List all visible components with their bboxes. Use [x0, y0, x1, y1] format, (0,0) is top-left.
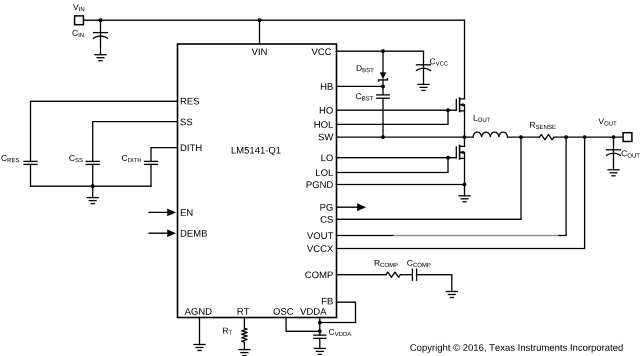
wire R_COMP to C_COMP [401, 274, 413, 276]
wire FB pin to VDDA node [320, 302, 356, 322]
pin VCC [312, 48, 332, 55]
wire ground bus under left capacitors [31, 185, 152, 187]
pin VCCX [307, 245, 333, 252]
ground below PGND [459, 196, 470, 202]
node EN arrowhead [167, 209, 176, 217]
wire LOL pin up to LO line [337, 158, 449, 173]
label C_DITH value [122, 155, 141, 162]
label V_IN net name [73, 4, 84, 11]
pin HB [321, 83, 333, 90]
ground below C_VCC [418, 84, 429, 90]
node VIN pin junction [258, 18, 262, 22]
node PGND junction [463, 183, 467, 187]
pin FB [322, 298, 333, 305]
node VCCX tap junction [583, 135, 587, 139]
wire inductor to sense resistor [508, 136, 540, 138]
wire VOUT pin horizontal (faded part) [394, 235, 559, 237]
ground below R_T [239, 350, 250, 356]
wire SS pin to C_SS [93, 122, 178, 162]
wire PGND pin to FET source node [337, 184, 465, 186]
wire PGND ground stem [464, 185, 466, 196]
transistor Q1 high-side NMOS [456, 98, 464, 137]
ground below capacitor bus [87, 198, 98, 204]
capacitor C_SS [86, 161, 99, 186]
pin RT [238, 308, 250, 315]
label C_RES value [1, 155, 19, 162]
label C_VCC value [430, 58, 448, 65]
label copyright notice [410, 344, 622, 353]
pin HOL [315, 121, 334, 128]
label C_IN value [72, 30, 83, 37]
pin OSC [274, 308, 294, 315]
wire VOUT corner up to output node [559, 137, 566, 235]
label C_BST value [356, 93, 373, 100]
label R_COMP value [375, 260, 398, 267]
node OSC/VDDA junction [318, 329, 322, 333]
pin DEMB [181, 230, 207, 237]
capacitor C_VCC (polarized) [417, 51, 431, 84]
label C_OUT value [622, 150, 640, 157]
node LO/LOL junction [446, 156, 450, 160]
wire VCC pin to C_VCC [337, 50, 424, 52]
wire COMP pin to R_COMP [337, 274, 387, 276]
wire LO pin to low-side gate [337, 157, 457, 159]
pin AGND [185, 308, 212, 315]
wire bus ground stem [92, 186, 94, 197]
node HB junction [381, 85, 385, 89]
wire C_COMP to ground stem [417, 275, 452, 292]
capacitor C_BST [377, 95, 390, 137]
pin EN [181, 209, 193, 216]
capacitor C_VDDA [314, 335, 326, 348]
wire PG output line [337, 206, 359, 208]
node DEMB arrowhead [167, 229, 176, 237]
wire AGND pin ground stem [199, 318, 201, 345]
node ground bus junction [91, 184, 95, 188]
op-amp U1 : IC body LM5141-Q1 [178, 44, 337, 318]
wire HOL pin up to HO line [337, 110, 449, 124]
wire RT pin to R_T [243, 318, 245, 329]
wire VIN rail from terminal to high-side FET drain [84, 20, 465, 99]
pin VOUT [307, 232, 333, 239]
capacitor C_RES [24, 161, 37, 186]
ground below AGND [194, 345, 205, 351]
inductor L_OUT [473, 132, 508, 137]
resistor R_SENSE [540, 135, 554, 140]
label IC part number LM5141-Q1 [232, 147, 281, 155]
pin SS [180, 119, 192, 126]
label C_COMP value [407, 260, 430, 267]
resistor R_COMP [386, 272, 400, 277]
wire VIN pin drop [259, 20, 261, 44]
wire CS pin up to sense node [337, 137, 522, 219]
pin SW [318, 134, 333, 141]
pin VDDA [300, 308, 326, 315]
pin RES [181, 98, 199, 105]
node VOUT tap junction [564, 135, 568, 139]
pin HO [320, 107, 333, 114]
node SW FET junction [463, 135, 467, 139]
node C_OUT tap junction [612, 135, 616, 139]
capacitor C_COMP (series) [412, 269, 416, 280]
wire VDDA pin down to C_VDDA [319, 318, 321, 336]
wire HO pin to high-side gate [337, 109, 457, 111]
pin LO [321, 155, 332, 162]
wire HB node to C_BST [382, 86, 384, 95]
label C_SS value [69, 155, 83, 162]
node C_IN tap junction [99, 18, 103, 22]
ground below C_IN [95, 55, 106, 61]
wire OSC pin down and right to VDDA node [286, 318, 320, 332]
transistor Q2 low-side NMOS [456, 137, 464, 184]
node VOUT terminal square [623, 133, 632, 142]
wire VOUT pin horizontal (dark part) [337, 235, 395, 237]
node FB/VDDA junction [318, 321, 322, 325]
wire VCCX pin up to output node [337, 137, 585, 248]
wire SW pin to FET source [337, 136, 474, 138]
pin PGND [307, 181, 333, 188]
resistor R_T [242, 328, 247, 342]
label D_BST value [357, 65, 374, 72]
ground below C_VDDA [314, 348, 325, 354]
label V_OUT net name [598, 119, 616, 126]
label R_T value [223, 328, 232, 335]
wire R_T to ground [243, 342, 245, 350]
label R_SENSE value [530, 122, 556, 129]
wire VCC junction down to diode anode [382, 51, 384, 72]
ground below C_OUT [608, 170, 619, 176]
node C_BST bottom tap on SW [381, 135, 385, 139]
wire HB pin [337, 85, 384, 87]
pin CS [321, 216, 333, 223]
label L_OUT value [474, 115, 491, 122]
capacitor C_IN (polarized) [94, 20, 108, 55]
pin VIN [252, 49, 267, 56]
wire RES pin to C_RES [31, 101, 178, 161]
node D_BST tap on VCC wire [381, 49, 385, 53]
wire EN input line [149, 211, 169, 213]
wire DEMB input line [149, 232, 169, 234]
pin COMP [305, 272, 333, 279]
node HO/HOL junction [446, 108, 450, 112]
pin DITH [181, 145, 202, 152]
node PG arrowhead [357, 203, 366, 211]
wire diode cathode to HB node [382, 80, 384, 87]
wire sense resistor to VOUT terminal [554, 136, 623, 138]
node VIN terminal square [75, 16, 84, 25]
ground below C_COMP [446, 292, 457, 298]
wire DITH pin to C_DITH [151, 148, 178, 162]
capacitor C_DITH [145, 161, 158, 186]
pin PG [320, 204, 332, 211]
label C_VDDA value [329, 329, 351, 336]
pin LOL [316, 169, 333, 176]
capacitor C_OUT (polarized) [607, 137, 621, 170]
diode D_BST [379, 72, 388, 81]
node CS tap junction [519, 135, 523, 139]
